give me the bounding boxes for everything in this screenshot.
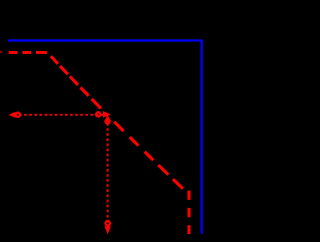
bottom open circle marker — [105, 221, 110, 226]
top open circle marker — [105, 119, 109, 123]
left open circle marker — [16, 113, 20, 117]
curve flat top segment (red dashed) — [9, 51, 48, 54]
bottom arrowhead — [105, 226, 111, 234]
left arrowhead — [9, 112, 16, 118]
curve bending segment (red dashed frontier) — [48, 53, 190, 195]
curve vertical tail (red dashed) — [187, 191, 190, 234]
horizontal dotted arrow line — [14, 114, 103, 116]
vertical dotted arrow line — [107, 118, 109, 229]
right open circle marker — [96, 112, 100, 116]
axis (blue boundary, top horizontal and right vertical) — [8, 41, 202, 234]
right arrowhead — [103, 111, 111, 118]
edge dash fragment of red curve at left border — [0, 51, 2, 53]
top arrowhead — [104, 114, 110, 122]
